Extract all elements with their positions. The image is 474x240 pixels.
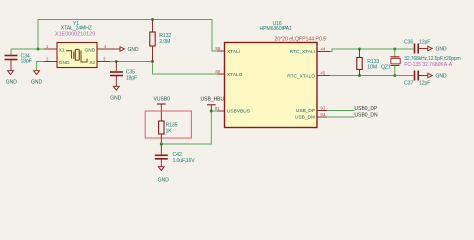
svg-text:GND: GND bbox=[85, 48, 96, 54]
svg-text:45: 45 bbox=[320, 70, 325, 75]
svg-text:89: 89 bbox=[215, 69, 220, 74]
svg-text:GND: GND bbox=[128, 47, 140, 53]
svg-text:GND: GND bbox=[436, 47, 448, 53]
junction QZ1 bottom bbox=[393, 74, 396, 77]
svg-text:18pF: 18pF bbox=[21, 59, 32, 65]
svg-text:GND: GND bbox=[436, 74, 448, 80]
ground under C34 bbox=[6, 71, 17, 86]
svg-text:X1E0000210129: X1E0000210129 bbox=[55, 32, 95, 38]
junction C35 bbox=[115, 60, 118, 63]
svg-text:44: 44 bbox=[320, 46, 325, 51]
svg-text:HPM6360IPA1: HPM6360IPA1 bbox=[260, 26, 293, 32]
power symbol USB_HBUS bbox=[201, 96, 229, 111]
svg-text:RTC_XTALI: RTC_XTALI bbox=[290, 49, 315, 55]
Y1 pin 4 bbox=[97, 48, 110, 50]
capacitor C42 bbox=[155, 144, 195, 167]
DNP highlight box around R135 bbox=[145, 111, 191, 138]
svg-text:88: 88 bbox=[215, 46, 220, 51]
junction USB_HBUS node bbox=[210, 110, 213, 113]
U16 pin 93 USB_DM bbox=[295, 112, 327, 121]
Y1 pin 2 bbox=[44, 61, 57, 63]
U16 pin 88 XTALI bbox=[215, 46, 240, 55]
Y1 pin 1 bbox=[44, 48, 57, 50]
ground arrow right of Y1 pin4 bbox=[110, 47, 139, 53]
U16 pin 89 XTALO bbox=[215, 69, 242, 78]
svg-text:USBVBUS: USBVBUS bbox=[227, 108, 250, 114]
svg-text:93: 93 bbox=[320, 112, 325, 117]
svg-text:XTALO: XTALO bbox=[227, 72, 243, 78]
junction rail/R132 bbox=[151, 18, 154, 21]
svg-text:FC-135 32.7680KA-A: FC-135 32.7680KA-A bbox=[404, 62, 452, 68]
svg-text:12pF: 12pF bbox=[419, 39, 430, 45]
ground right of C36 bbox=[428, 46, 447, 52]
svg-text:X2: X2 bbox=[89, 60, 95, 66]
svg-text:12pF: 12pF bbox=[419, 80, 430, 86]
ground under C35 bbox=[110, 86, 122, 101]
svg-text:20*20 eLQFP144 P0.5: 20*20 eLQFP144 P0.5 bbox=[275, 36, 327, 42]
svg-text:USB0_DP: USB0_DP bbox=[355, 106, 378, 112]
wire pin93 to label bbox=[327, 116, 355, 118]
svg-text:92: 92 bbox=[320, 106, 325, 111]
svg-text:18pF: 18pF bbox=[126, 75, 137, 81]
svg-text:XTALI: XTALI bbox=[227, 49, 240, 55]
resistor R132 bbox=[150, 20, 172, 62]
svg-text:C37: C37 bbox=[404, 80, 413, 86]
U16 pin 44 RTC_XTALI bbox=[290, 46, 330, 55]
Y1 pin 3 bbox=[97, 61, 110, 63]
U16 pin 45 RTC_XTALO bbox=[287, 70, 330, 79]
crystal QZ1 bbox=[381, 49, 461, 76]
capacitor C35 bbox=[110, 62, 137, 87]
U16 pin 92 USB_DP bbox=[296, 106, 327, 114]
svg-text:1.0uF,16V: 1.0uF,16V bbox=[173, 158, 196, 164]
wire pin44 to C36 bbox=[330, 49, 414, 52]
svg-text:USB0_DN: USB0_DN bbox=[355, 112, 378, 118]
junction node XTALI left bbox=[37, 48, 40, 51]
capacitor C36 bbox=[404, 39, 430, 53]
svg-text:USB_DP: USB_DP bbox=[296, 108, 315, 114]
wire top rail XTALI bbox=[38, 20, 217, 52]
svg-text:1K: 1K bbox=[166, 129, 173, 135]
svg-text:C36: C36 bbox=[404, 39, 413, 45]
svg-text:RTC_XTALO: RTC_XTALO bbox=[287, 73, 315, 79]
svg-text:GND: GND bbox=[6, 80, 17, 86]
wire Y1 pin3 to R132 bottom and XTALO bbox=[110, 62, 217, 75]
svg-text:USB_DM: USB_DM bbox=[295, 114, 315, 120]
svg-text:GND: GND bbox=[158, 177, 170, 183]
svg-text:VUSB0: VUSB0 bbox=[154, 97, 171, 103]
crystal Y1 bbox=[44, 21, 110, 68]
crystal glyph inside Y1 bbox=[66, 49, 87, 62]
ground under Y1 pin2 bbox=[31, 71, 43, 86]
wire pin92 to label bbox=[327, 110, 355, 112]
svg-text:2.0M: 2.0M bbox=[159, 39, 170, 45]
IC U16 bbox=[225, 21, 327, 128]
wire R135 bottom to USB_HBUS riser bbox=[161, 111, 217, 144]
U16 pin 91 USBVBUS bbox=[215, 106, 250, 115]
svg-text:10M: 10M bbox=[367, 65, 377, 71]
svg-text:91: 91 bbox=[215, 106, 220, 111]
svg-text:XTAL_24MHZ: XTAL_24MHZ bbox=[61, 26, 92, 32]
capacitor C34 bbox=[5, 54, 32, 71]
power symbol VUSB0 bbox=[154, 97, 171, 121]
junction QZ1 top bbox=[393, 48, 396, 51]
resistor R135 bbox=[159, 121, 178, 144]
svg-text:GND: GND bbox=[31, 80, 43, 86]
svg-text:QZ1: QZ1 bbox=[381, 64, 391, 70]
ground right of C37 bbox=[428, 73, 447, 79]
wire pin45 to C37 bbox=[330, 75, 414, 77]
wire C34 to Y1 pin1 bbox=[11, 49, 44, 55]
capacitor C37 bbox=[404, 71, 430, 87]
junction R135/C42 bbox=[160, 143, 163, 146]
resistor R133 bbox=[357, 49, 380, 76]
ground under C42 bbox=[158, 167, 170, 184]
junction R133 top bbox=[358, 48, 361, 51]
svg-text:GND: GND bbox=[59, 60, 70, 66]
junction R132 bottom bbox=[151, 60, 154, 63]
junction R133 bottom bbox=[358, 74, 361, 77]
svg-text:X1: X1 bbox=[59, 48, 65, 54]
svg-text:GND: GND bbox=[110, 96, 122, 102]
wire Y1 pin2 to ground bbox=[37, 62, 44, 71]
